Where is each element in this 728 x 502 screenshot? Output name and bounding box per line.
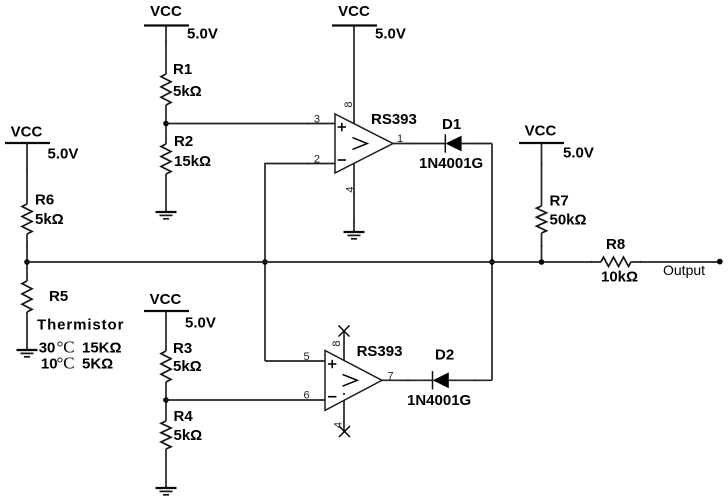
- svg-text:VCC: VCC: [11, 124, 43, 141]
- svg-text:5.0V: 5.0V: [375, 26, 406, 43]
- svg-text:R5: R5: [49, 288, 68, 305]
- resistor R7: [537, 193, 587, 234]
- wire R1 to R2: [165, 105, 167, 144]
- node main-left junction: [24, 259, 30, 265]
- power VCC (op-amp U1 supply, top-middle): [332, 3, 406, 43]
- resistor R6: [22, 192, 64, 235]
- no-connect X on U2 pin 4: [339, 426, 350, 437]
- svg-text:5kΩ: 5kΩ: [173, 83, 202, 100]
- ground (below U1): [344, 232, 365, 239]
- wire pin-end tick dots: [26, 40, 642, 395]
- wire VCC to U1 pin 8: [353, 26, 355, 124]
- wire node B vertical (D1 to D2): [491, 144, 493, 381]
- wire U2 pin 8 stub: [343, 331, 345, 360]
- svg-text:5: 5: [303, 351, 309, 363]
- svg-text:1N4001G: 1N4001G: [407, 392, 471, 409]
- resistor R2: [161, 133, 211, 174]
- svg-text:VCC: VCC: [525, 123, 557, 140]
- node Output terminal: [717, 259, 723, 265]
- diode D2 1N4001G: [407, 347, 471, 410]
- op-amp U2 RS393: [325, 343, 402, 410]
- svg-text:D1: D1: [442, 116, 461, 133]
- wire R6 to main node: [26, 234, 28, 281]
- diode D1 1N4001G: [419, 116, 483, 172]
- wire node R3/R4 to U2 pin 6: [166, 399, 325, 401]
- wire U1 pin 4 to ground: [353, 163, 355, 232]
- svg-text:R4: R4: [174, 408, 194, 425]
- wire VCC to R3: [165, 311, 167, 351]
- svg-text:Thermistor: Thermistor: [37, 317, 124, 334]
- power VCC (net of R3, bottom-middle): [144, 291, 216, 332]
- svg-text:15kΩ: 15kΩ: [174, 153, 211, 170]
- resistor R4: [161, 408, 202, 449]
- svg-text:5kΩ: 5kΩ: [35, 211, 64, 228]
- node junction R1/R2: [163, 121, 169, 127]
- wire R8 to output: [631, 261, 717, 263]
- node junction R3/R4: [163, 397, 169, 403]
- svg-text:VCC: VCC: [150, 3, 182, 20]
- svg-text:D2: D2: [435, 347, 454, 364]
- svg-text:8: 8: [331, 340, 343, 346]
- svg-text:R3: R3: [173, 340, 192, 357]
- wire D2 to node B: [448, 379, 492, 381]
- svg-text:R2: R2: [174, 133, 193, 150]
- svg-text:50kΩ: 50kΩ: [550, 212, 587, 229]
- node B junction on main net: [489, 259, 495, 265]
- svg-text:RS393: RS393: [371, 111, 417, 128]
- wire R2 to ground: [165, 174, 167, 212]
- svg-text:8: 8: [343, 101, 355, 107]
- wire VCC to R7: [541, 143, 543, 206]
- svg-text:VCC: VCC: [338, 3, 370, 20]
- svg-text:1N4001G: 1N4001G: [419, 155, 483, 172]
- svg-text:5kΩ: 5kΩ: [173, 358, 202, 375]
- wire main output net: [27, 261, 601, 263]
- svg-text:5.0V: 5.0V: [563, 145, 594, 162]
- wire U2 pin 4 stub: [343, 401, 345, 433]
- power VCC (net of R1, top-left): [144, 3, 218, 43]
- no-connect X on U2 pin 8: [339, 326, 350, 337]
- wire U1 pin 1 to D1: [393, 143, 445, 145]
- ground (below R2): [156, 212, 177, 219]
- ground (below R5): [17, 350, 38, 357]
- wire U2 pin 7 to D2: [382, 379, 433, 381]
- wire U1 pin 2 to node A: [265, 164, 335, 362]
- wire node A branch to U2 pin 5: [265, 360, 325, 362]
- svg-text:10kΩ: 10kΩ: [601, 269, 638, 286]
- svg-text:3: 3: [314, 114, 320, 126]
- svg-text:R8: R8: [606, 236, 625, 253]
- wire R5 to ground: [26, 312, 28, 350]
- wire D1 to node B: [461, 143, 492, 145]
- svg-text:4: 4: [333, 422, 345, 428]
- wire R4 to ground: [165, 449, 167, 488]
- svg-text:R6: R6: [35, 192, 54, 209]
- resistor R8: [601, 236, 638, 286]
- resistor R1: [161, 61, 202, 105]
- wire R7 to main net: [541, 233, 543, 262]
- svg-text:R1: R1: [173, 61, 192, 78]
- svg-text:5kΩ: 5kΩ: [174, 427, 203, 444]
- ground (below R4): [156, 488, 177, 495]
- svg-text:5.0V: 5.0V: [187, 26, 218, 43]
- resistor R5 thermistor: [22, 281, 124, 373]
- power VCC (net of R6, left): [5, 124, 78, 163]
- op-amp U1 RS393: [335, 111, 417, 173]
- svg-text:5.0V: 5.0V: [48, 146, 79, 163]
- svg-text:6: 6: [303, 390, 309, 402]
- wire VCC to R6: [26, 143, 28, 204]
- svg-text:RS393: RS393: [357, 343, 403, 360]
- node A junction on main net: [262, 259, 268, 265]
- svg-text:VCC: VCC: [150, 291, 182, 308]
- wire node R1/R2 to op-amp pin 3: [166, 123, 335, 125]
- node R7 junction: [539, 259, 545, 265]
- resistor R3: [161, 340, 202, 382]
- svg-text:5.0V: 5.0V: [185, 315, 216, 332]
- svg-text:R7: R7: [550, 193, 569, 210]
- power VCC (net of R7, right): [519, 123, 594, 162]
- svg-text:Output: Output: [663, 262, 705, 278]
- wire R3 to R4: [165, 382, 167, 421]
- wire VCC to R1: [165, 26, 167, 75]
